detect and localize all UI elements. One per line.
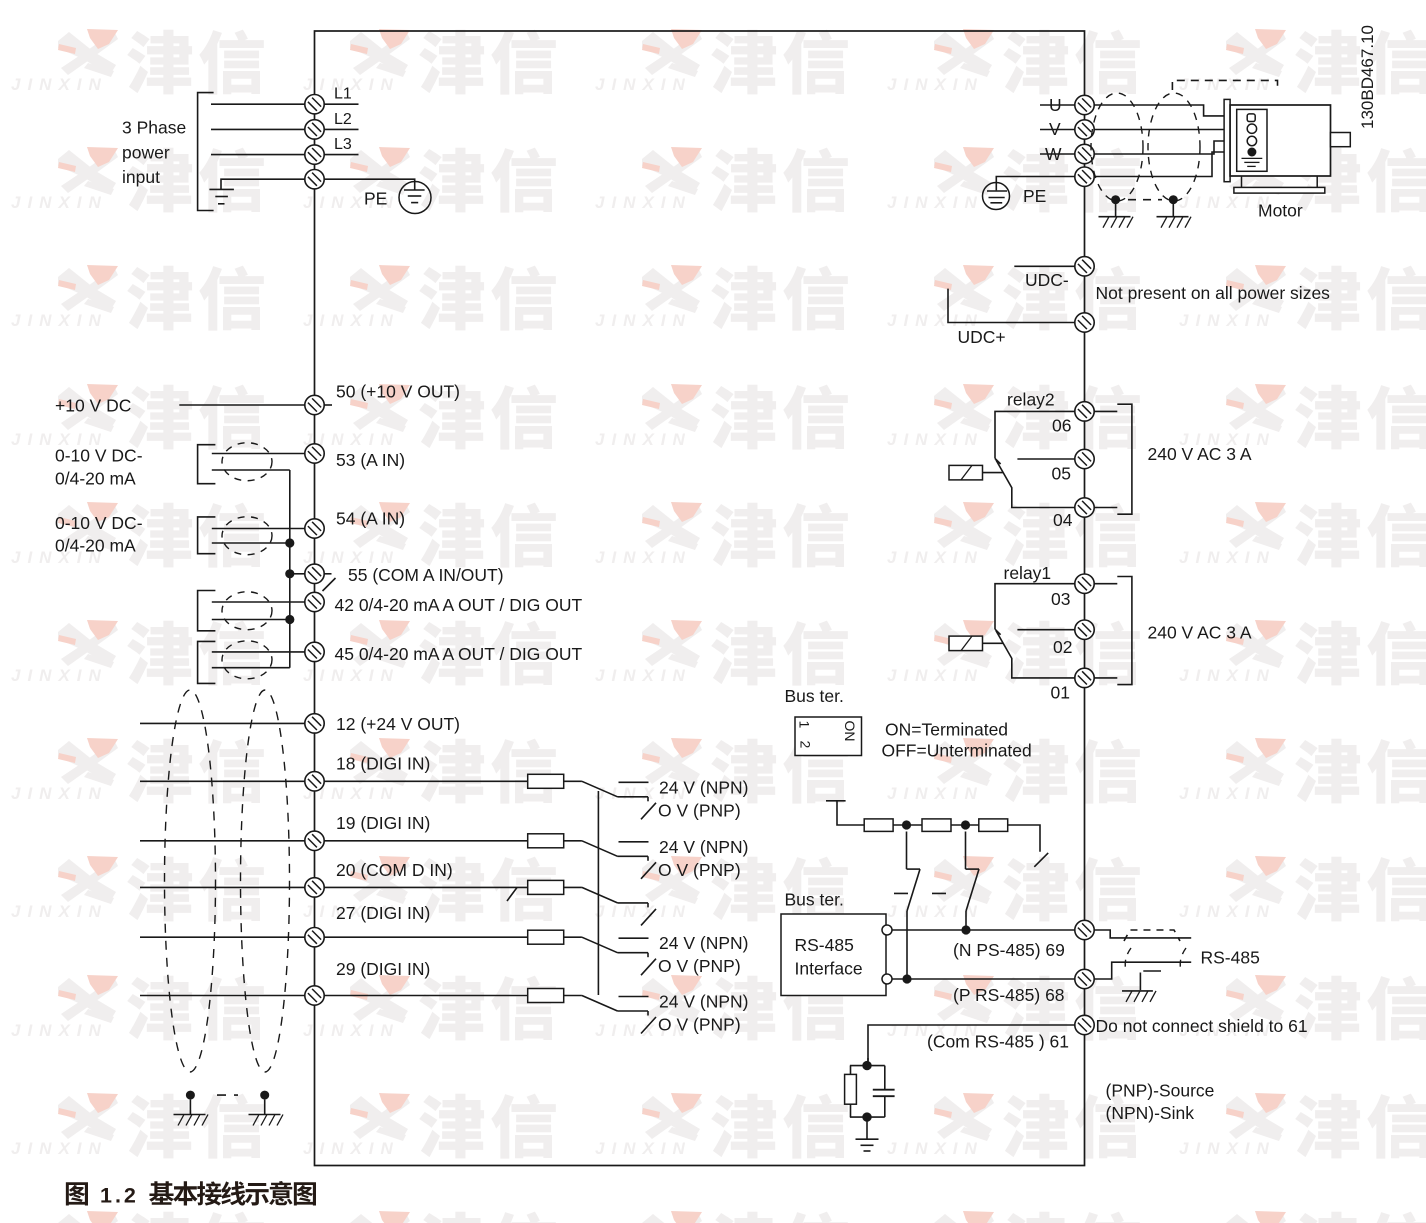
shielded cable terminal 54 <box>198 517 305 555</box>
svg-text:input: input <box>122 167 160 187</box>
drive enclosure box <box>315 31 1085 1166</box>
svg-text:PE: PE <box>1023 186 1046 206</box>
svg-text:240 V AC 3 A: 240 V AC 3 A <box>1148 623 1252 643</box>
svg-text:ON=Terminated: ON=Terminated <box>885 720 1008 740</box>
terminal 45 <box>305 642 324 661</box>
label 0-10 V DC- 0/4-20 mA first <box>55 446 143 489</box>
terminal 19 <box>305 831 324 850</box>
shield ground dot right <box>260 1091 269 1100</box>
interface pin circle 68 <box>882 974 892 984</box>
svg-text:1.2: 1.2 <box>100 1184 139 1208</box>
terminal 42 <box>305 592 324 611</box>
input network terminal 20 <box>324 880 656 925</box>
wire W to motor <box>1094 141 1247 154</box>
wire PE out to earth circle <box>996 177 1075 191</box>
shielded cable terminal 42 <box>198 591 305 631</box>
svg-text:240 V AC 3 A: 240 V AC 3 A <box>1148 444 1252 464</box>
wire V to motor <box>1094 129 1247 131</box>
RS-485 shield drain <box>1140 971 1161 990</box>
wire U to motor <box>1094 105 1248 116</box>
svg-text:01: 01 <box>1051 683 1070 703</box>
dashed coupling line <box>894 892 963 894</box>
terminal 18 <box>305 772 324 791</box>
terminal 29 <box>305 986 324 1005</box>
wire L1 <box>211 103 305 105</box>
terminal PE input <box>305 170 324 189</box>
terminal 68 <box>1075 969 1094 988</box>
svg-text:27 (DIGI IN): 27 (DIGI IN) <box>336 903 430 923</box>
svg-text:29 (DIGI IN): 29 (DIGI IN) <box>336 959 430 979</box>
RS-485 interface box <box>781 914 886 996</box>
bus termination dip switch <box>795 717 862 756</box>
svg-text:54 (A IN): 54 (A IN) <box>336 509 405 529</box>
wire 69 to RS-485 cable <box>1094 930 1191 938</box>
relay 2 contact network <box>949 404 1132 514</box>
svg-text:0-10 V DC-: 0-10 V DC- <box>55 513 143 533</box>
ground symbol below RC <box>856 1117 879 1151</box>
wire to terminal 12 <box>140 722 305 724</box>
junction dot termination 1 <box>902 820 911 829</box>
wire L3 <box>211 154 305 156</box>
svg-text:06: 06 <box>1052 416 1071 436</box>
wire resistor1 to dot <box>893 824 922 826</box>
svg-text:05: 05 <box>1052 464 1071 484</box>
termination switch right <box>966 832 980 931</box>
terminal 53 <box>305 444 324 463</box>
terminal PE out <box>1075 167 1094 186</box>
hatched ground motor right <box>1157 204 1192 228</box>
svg-text:O V (PNP): O V (PNP) <box>658 800 741 820</box>
dash between motor shield dots <box>1128 199 1162 201</box>
svg-text:UDC+: UDC+ <box>958 327 1006 347</box>
junction dot 54 shield <box>285 538 294 547</box>
motor shield dot right <box>1169 195 1178 204</box>
svg-text:Interface: Interface <box>795 959 863 979</box>
svg-text:O V (PNP): O V (PNP) <box>658 956 741 976</box>
terminal V <box>1075 120 1094 139</box>
svg-text:PE: PE <box>364 189 387 209</box>
svg-text:53 (A IN): 53 (A IN) <box>336 450 405 470</box>
RC network bottom rail <box>850 1116 885 1118</box>
svg-text:(Com RS-485 ) 61: (Com RS-485 ) 61 <box>927 1032 1069 1052</box>
wire 61 <box>868 1025 1075 1061</box>
wire 68 <box>892 978 1075 980</box>
svg-text:3 Phase: 3 Phase <box>122 118 186 138</box>
stub right of terminal 50 <box>324 404 332 406</box>
svg-text:45 0/4-20 mA A OUT / DIG OUT: 45 0/4-20 mA A OUT / DIG OUT <box>335 644 583 664</box>
svg-text:24 V (NPN): 24 V (NPN) <box>659 992 748 1012</box>
terminal U <box>1075 95 1094 114</box>
svg-text:relay1: relay1 <box>1004 563 1052 583</box>
shield ground dot left <box>186 1091 195 1100</box>
resistor to ground <box>845 1066 857 1118</box>
labels 24V NPN / 0V PNP for 27 <box>658 933 748 976</box>
wire U inside <box>1040 104 1075 106</box>
input network terminal 19 <box>324 834 656 879</box>
terminal UDC+ <box>1075 313 1094 332</box>
svg-text:55 (COM A IN/OUT): 55 (COM A IN/OUT) <box>348 565 504 585</box>
svg-text:130BD467.10: 130BD467.10 <box>1358 25 1377 129</box>
wire L2 inside <box>324 128 358 130</box>
wire to terminal 29 <box>140 995 305 997</box>
terminal UDC- <box>1075 257 1094 276</box>
terminal 50 <box>305 395 324 414</box>
svg-text:O V (PNP): O V (PNP) <box>658 1015 741 1035</box>
wire UDC+ <box>948 289 1075 323</box>
svg-text:UDC-: UDC- <box>1025 270 1069 290</box>
svg-text:20 (COM D IN): 20 (COM D IN) <box>336 860 453 880</box>
wire L1 inside <box>324 103 358 105</box>
ground symbol at PE input <box>209 189 234 203</box>
terminal L1 <box>305 95 324 114</box>
hatched ground motor left <box>1099 204 1134 228</box>
svg-text:Not present on all power sizes: Not present on all power sizes <box>1096 283 1331 303</box>
wire L2 <box>211 128 305 130</box>
terminal 61 <box>1075 1015 1094 1034</box>
wire UDC- <box>1014 265 1075 267</box>
relay 1 contact network <box>949 577 1132 685</box>
common bus for analog shields <box>289 470 291 668</box>
junction dot RC bottom <box>862 1112 871 1121</box>
wire resistor2 to resistor3 <box>951 824 979 826</box>
svg-text:(PNP)-Source: (PNP)-Source <box>1106 1081 1215 1101</box>
termination network top stub <box>826 801 864 825</box>
termination resistor 3 <box>979 819 1008 832</box>
svg-text:2: 2 <box>798 741 814 749</box>
hatched ground left <box>174 1100 209 1126</box>
digital cable shield oval right <box>241 690 290 1072</box>
svg-text:ON: ON <box>842 721 858 742</box>
motor cable shield ellipse left <box>1091 93 1143 201</box>
wire to terminal 27 <box>140 936 305 938</box>
termination switch left <box>907 832 921 979</box>
svg-text:V: V <box>1049 119 1061 139</box>
capacitor to ground <box>873 1066 895 1118</box>
input network terminal 29 <box>324 989 656 1034</box>
shielded cable terminal 45 <box>198 641 305 684</box>
svg-text:L1: L1 <box>334 86 352 103</box>
shielded cable terminal 53 <box>198 443 305 484</box>
terminal 27 <box>305 928 324 947</box>
terminal W <box>1075 144 1094 163</box>
svg-text:+10 V DC: +10 V DC <box>55 396 131 416</box>
3-phase input bracket <box>198 93 214 211</box>
wire L3 inside <box>324 154 358 156</box>
svg-text:Motor: Motor <box>1258 201 1303 221</box>
RC network top rail <box>850 1065 885 1067</box>
svg-text:24 V (NPN): 24 V (NPN) <box>659 837 748 857</box>
terminal 01 <box>1075 668 1094 687</box>
svg-text:Do not connect shield to 61: Do not connect shield to 61 <box>1096 1016 1308 1036</box>
svg-text:24 V (NPN): 24 V (NPN) <box>659 933 748 953</box>
label 0-10 V DC- 0/4-20 mA second <box>55 513 143 556</box>
terminal L2 <box>305 120 324 139</box>
motor cable shield ellipse right <box>1148 93 1200 201</box>
svg-text:L3: L3 <box>334 136 352 153</box>
svg-text:42 0/4-20 mA A OUT / DIG OUT: 42 0/4-20 mA A OUT / DIG OUT <box>335 595 583 615</box>
text 3 Phase power input <box>122 118 186 188</box>
dash between shield dots <box>217 1094 238 1096</box>
junction dot on wire 69 <box>961 925 970 934</box>
wire PE input <box>221 179 305 189</box>
wire to terminal 50 <box>179 404 304 406</box>
labels 24V NPN / 0V PNP for 29 <box>658 992 748 1035</box>
svg-text:0/4-20 mA: 0/4-20 mA <box>55 536 136 556</box>
terminal 20 <box>305 878 324 897</box>
motor shield dot left <box>1111 195 1120 204</box>
svg-text:O V (PNP): O V (PNP) <box>658 860 741 880</box>
wire 61 into dot <box>867 1058 869 1066</box>
svg-text:12 (+24 V OUT): 12 (+24 V OUT) <box>336 714 460 734</box>
svg-text:U: U <box>1049 95 1062 115</box>
junction dot 42 shield <box>285 615 294 624</box>
svg-text:02: 02 <box>1053 637 1072 657</box>
svg-text:1: 1 <box>797 721 813 729</box>
protective earth symbol left <box>399 182 431 214</box>
switch common bus digital <box>597 791 599 995</box>
digital cable shield oval left <box>165 690 216 1072</box>
wire W inside <box>1040 153 1075 155</box>
labels 24V NPN / 0V PNP for 18 <box>658 777 748 820</box>
wire to terminal 18 <box>140 780 305 782</box>
terminal L3 <box>305 145 324 164</box>
svg-text:relay2: relay2 <box>1007 390 1055 410</box>
wire to terminal 19 <box>140 840 305 842</box>
hatched ground right <box>249 1100 284 1126</box>
junction dot termination 2 <box>961 820 970 829</box>
protective earth symbol right <box>983 183 1010 210</box>
svg-text:(NPN)-Sink: (NPN)-Sink <box>1106 1103 1195 1123</box>
caption figure 1.2 <box>66 1181 316 1208</box>
hatched ground RS-485 <box>1122 991 1156 1002</box>
svg-text:Bus ter.: Bus ter. <box>785 686 844 706</box>
svg-text:0/4-20 mA: 0/4-20 mA <box>55 469 136 489</box>
svg-text:RS-485: RS-485 <box>1201 948 1260 968</box>
motor cable dashed bracket <box>1172 80 1277 90</box>
svg-text:50 (+10 V OUT): 50 (+10 V OUT) <box>336 382 460 402</box>
termination resistor 2 <box>922 819 951 832</box>
input network terminal 27 <box>324 930 656 975</box>
terminal 55 <box>305 564 324 583</box>
svg-text:04: 04 <box>1053 510 1073 530</box>
junction dot RC top <box>862 1061 871 1070</box>
motor <box>1224 99 1350 193</box>
svg-text:(P RS-485) 68: (P RS-485) 68 <box>953 985 1065 1005</box>
terminal 05 <box>1075 449 1094 468</box>
wire PE to motor <box>1094 152 1247 177</box>
svg-text:(N PS-485) 69: (N PS-485) 69 <box>953 940 1065 960</box>
junction dot 55 wire <box>285 569 294 578</box>
svg-text:RS-485: RS-485 <box>795 935 854 955</box>
input network terminal 18 <box>324 774 656 819</box>
labels 24V NPN / 0V PNP for 19 <box>658 837 748 880</box>
svg-text:Bus ter.: Bus ter. <box>785 890 844 910</box>
terminal 54 <box>305 519 324 538</box>
wire 69 <box>892 929 1075 931</box>
wire resistor3 right and down <box>1008 825 1040 852</box>
terminal 69 <box>1075 920 1094 939</box>
interface pin circle 69 <box>882 925 892 935</box>
wire V inside <box>1040 129 1075 131</box>
svg-text:24 V (NPN): 24 V (NPN) <box>659 777 748 797</box>
switch blade right branch <box>1034 853 1048 867</box>
termination resistor 1 <box>864 819 893 832</box>
terminal 06 <box>1075 402 1094 421</box>
svg-text:03: 03 <box>1051 589 1070 609</box>
terminal 02 <box>1075 620 1094 639</box>
svg-text:19 (DIGI IN): 19 (DIGI IN) <box>336 813 430 833</box>
svg-text:18 (DIGI IN): 18 (DIGI IN) <box>336 754 430 774</box>
svg-text:W: W <box>1045 144 1062 164</box>
terminal 12 <box>305 714 324 733</box>
svg-text:L2: L2 <box>334 111 352 128</box>
RS-485 cable dashed bracket <box>1124 930 1180 941</box>
svg-text:power: power <box>122 143 170 163</box>
svg-text:0-10 V DC-: 0-10 V DC- <box>55 446 143 466</box>
junction dot on wire 68 <box>902 974 911 983</box>
RS-485 cable shield arcs <box>1125 948 1186 971</box>
svg-text:OFF=Unterminated: OFF=Unterminated <box>882 741 1032 761</box>
wire to terminal 20 <box>140 886 305 888</box>
terminal 04 <box>1075 498 1094 517</box>
terminal 03 <box>1075 574 1094 593</box>
switch tick at terminal 55 <box>323 574 336 591</box>
wire to terminal 55 <box>290 573 305 575</box>
wire 68 to RS-485 cable <box>1094 962 1191 979</box>
wire PE to earth circle <box>324 179 415 190</box>
